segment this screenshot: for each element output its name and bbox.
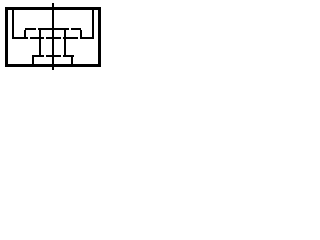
left inner wall vertical xyxy=(12,10,14,38)
package outline bottom edge xyxy=(5,64,101,67)
hidden line A dash gap 1 xyxy=(36,28,38,30)
hidden line B dash gap 4 xyxy=(78,37,80,39)
pedestal left side xyxy=(32,57,34,64)
right stub vertical xyxy=(80,30,82,37)
left stub vertical xyxy=(24,30,26,37)
hidden line B dash gap 2 xyxy=(44,37,46,39)
right inner wall vertical xyxy=(92,10,94,38)
hidden line B dash gap 3 xyxy=(61,37,63,39)
pedestal top edge xyxy=(32,55,74,57)
hidden line A dash gap 2 xyxy=(69,28,71,30)
hidden line B horizontal xyxy=(12,37,94,39)
right hidden pin vertical xyxy=(64,30,66,57)
pedestal top dash gap 2 xyxy=(61,55,63,57)
pedestal right side xyxy=(71,57,73,64)
hidden line A horizontal xyxy=(25,28,81,30)
vertical centerline xyxy=(52,3,54,70)
package outline left edge xyxy=(5,7,8,67)
pedestal top dash gap 1 xyxy=(44,55,46,57)
left hidden pin vertical xyxy=(39,30,41,57)
package outline top edge xyxy=(5,7,101,10)
hidden line B dash gap 1 xyxy=(28,37,30,39)
package outline right edge xyxy=(98,7,101,67)
